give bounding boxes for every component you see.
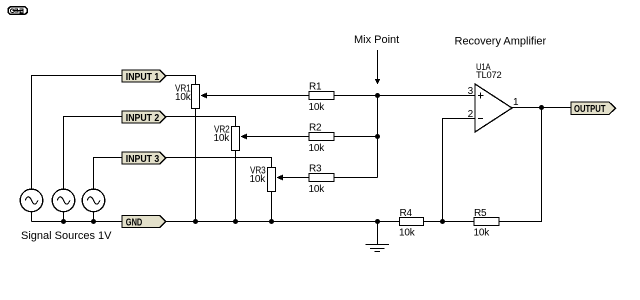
node GND tag (122, 216, 166, 229)
resistor R4 (399, 208, 424, 239)
svg-text:10k: 10k (213, 133, 230, 144)
junction mix point R1 (375, 93, 380, 98)
wire VR2 wiper to R2 (246, 136, 310, 138)
junction output (539, 105, 544, 110)
wire V2 bottom (63, 212, 65, 222)
resistor R3 (309, 164, 335, 196)
svg-text:TL072: TL072 (476, 70, 502, 80)
ESP logo (8, 7, 27, 15)
junction V3 ground (91, 219, 96, 224)
wire feedback to pin2 (443, 119, 476, 222)
svg-text:3: 3 (468, 86, 474, 97)
svg-text:10k: 10k (309, 102, 326, 113)
wire R1 to op-amp pin3 (334, 95, 475, 97)
svg-text:R4: R4 (400, 208, 413, 219)
junction VR2 ground (233, 219, 238, 224)
svg-text:R1: R1 (309, 82, 322, 93)
svg-text:1: 1 (513, 97, 519, 108)
wire mix vertical (377, 96, 379, 178)
wire INPUT2 to V2 (64, 117, 123, 190)
resistor R5 (474, 208, 500, 239)
wire R5 to output (499, 108, 542, 222)
junction ground symbol (375, 219, 380, 224)
svg-text:R3: R3 (309, 164, 322, 175)
junction V2 ground (61, 219, 66, 224)
node OUTPUT tag (571, 102, 616, 115)
junction feedback node (440, 219, 445, 224)
wire R2 to mix point (334, 136, 378, 138)
svg-text:Recovery Amplifier: Recovery Amplifier (455, 36, 547, 48)
wire VR1 bottom to bus (195, 109, 197, 222)
svg-text:2: 2 (468, 109, 474, 120)
svg-text:10k: 10k (474, 228, 491, 239)
resistor R2 (309, 123, 335, 155)
AC source V1 (20, 189, 43, 212)
wire INPUT2 to VR2 top (166, 117, 236, 127)
wire ground bus middle (166, 221, 400, 223)
svg-text:INPUT 3: INPUT 3 (126, 153, 160, 165)
AC source V2 (52, 189, 75, 212)
junction VR1 ground (193, 219, 198, 224)
junction VR3 ground (269, 219, 274, 224)
wire V3 bottom (93, 212, 95, 222)
wire INPUT3 to VR3 top (166, 158, 272, 168)
svg-text:INPUT 1: INPUT 1 (126, 71, 160, 83)
svg-text:R5: R5 (474, 208, 487, 219)
wire ground bus left (32, 221, 123, 223)
arrow mix point (375, 50, 381, 85)
wire INPUT3 to V3 (94, 158, 123, 190)
node INPUT 3 tag (122, 152, 166, 165)
ground (366, 222, 389, 252)
svg-text:10k: 10k (309, 143, 326, 154)
wire VR1 wiper to R1 (206, 95, 310, 97)
node INPUT 1 tag (122, 70, 166, 83)
wire VR3 bottom to bus (271, 192, 273, 222)
svg-text:GND: GND (126, 217, 143, 229)
svg-text:Mix Point: Mix Point (354, 34, 399, 46)
wire R4 to R5 (424, 221, 475, 223)
wire INPUT1 to V1 (32, 76, 123, 190)
potentiometer VR2 (213, 125, 246, 151)
wire VR3 wiper to R3 (282, 177, 310, 179)
svg-text:OUTPUT: OUTPUT (574, 103, 606, 115)
junction mix point R2 (375, 134, 380, 139)
svg-text:10k: 10k (399, 228, 416, 239)
wire VR2 bottom to bus (235, 151, 237, 222)
wire V1 bottom (31, 212, 33, 222)
svg-text:10k: 10k (309, 184, 326, 195)
svg-text:Signal Sources 1V: Signal Sources 1V (21, 230, 112, 242)
wire INPUT1 to VR1 top (166, 76, 196, 85)
resistor R1 (309, 82, 335, 114)
wire output (512, 107, 571, 109)
wire R3 to mix line (334, 177, 378, 179)
AC source V3 (82, 189, 105, 212)
svg-text:INPUT 2: INPUT 2 (126, 112, 160, 124)
op-amp U1A (475, 62, 512, 132)
svg-text:R2: R2 (309, 123, 322, 134)
svg-text:10k: 10k (249, 174, 266, 185)
node INPUT 2 tag (122, 111, 166, 124)
svg-text:10k: 10k (175, 92, 192, 103)
potentiometer VR3 (249, 166, 282, 192)
potentiometer VR1 (175, 84, 207, 109)
